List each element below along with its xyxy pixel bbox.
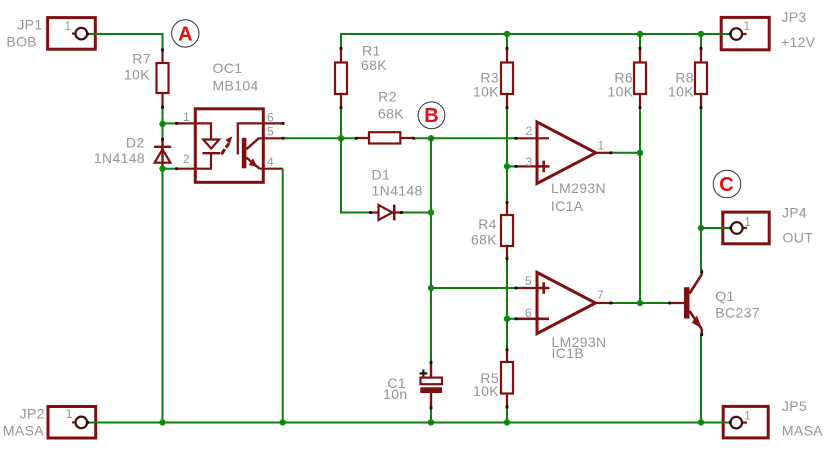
svg-text:C: C	[719, 174, 733, 196]
svg-text:MASA: MASA	[782, 423, 823, 439]
wire R8 bottom to JP4 junction	[700, 108, 702, 229]
node junction D1/node B column	[428, 209, 434, 215]
wire IC1B output to junction	[611, 302, 640, 304]
svg-text:JP1: JP1	[17, 16, 42, 32]
wire Q1 emitter down to bottom rail	[700, 334, 702, 422]
connector JP5	[723, 398, 823, 439]
svg-text:68K: 68K	[471, 232, 497, 248]
svg-text:D1: D1	[372, 167, 391, 183]
wire C1 bottom to rail	[430, 408, 432, 423]
svg-text:JP5: JP5	[782, 398, 807, 414]
svg-text:+12V: +12V	[781, 34, 816, 50]
svg-text:IC1A: IC1A	[551, 198, 584, 214]
connector JP1	[6, 16, 95, 49]
wire D1 to node B column	[401, 212, 431, 214]
node junction R7/D2/OC1 pin1	[159, 121, 165, 127]
svg-text:IC1B: IC1B	[552, 345, 585, 361]
node junction pin4 column / bottom rail	[280, 419, 286, 425]
wire D1 branch from R1 junction	[341, 138, 371, 212]
wire junction to IC1B pin6	[507, 318, 516, 320]
wire junction to Q1 base	[640, 302, 670, 304]
svg-text:BC237: BC237	[715, 305, 760, 321]
wire junction down to Q1 collector	[700, 228, 702, 270]
svg-text:OC1: OC1	[213, 60, 243, 76]
svg-text:2: 2	[526, 124, 533, 138]
svg-text:68K: 68K	[361, 57, 387, 73]
diode D1 1N4148	[370, 167, 423, 221]
node C badge	[713, 170, 741, 198]
wire OC1 pin5 to R1 junction	[283, 137, 356, 139]
svg-text:JP3: JP3	[781, 9, 806, 25]
svg-text:R2: R2	[378, 88, 397, 104]
wire node B to IC1A pin2	[431, 137, 516, 139]
svg-text:1: 1	[183, 110, 190, 124]
svg-text:7: 7	[597, 288, 604, 302]
svg-text:OUT: OUT	[783, 229, 814, 245]
wire R7 to node 1 junction	[162, 107, 164, 124]
svg-text:1N4148: 1N4148	[372, 183, 423, 199]
svg-text:5: 5	[525, 274, 532, 288]
resistor R1	[335, 43, 387, 108]
svg-text:JP4: JP4	[782, 204, 807, 220]
node junction B	[428, 135, 434, 141]
svg-text:LM293N: LM293N	[551, 180, 606, 196]
svg-text:5: 5	[267, 125, 274, 139]
svg-text:10K: 10K	[473, 383, 499, 399]
wire R5 bottom to rail	[506, 407, 508, 422]
node junction R3/R4/IC1A pin3	[504, 163, 510, 169]
svg-text:JP2: JP2	[20, 405, 45, 421]
diode D2 1N4148	[94, 135, 171, 167]
wire R4 bottom to pin6 junction	[506, 259, 508, 319]
svg-text:10K: 10K	[124, 67, 150, 83]
wire bottom rail MASA	[87, 422, 731, 424]
node junction IC1A out/R6	[637, 150, 643, 156]
svg-text:MASA: MASA	[3, 423, 44, 439]
svg-text:A: A	[178, 23, 192, 45]
node junction rail/R6	[637, 31, 643, 37]
svg-text:1: 1	[744, 409, 751, 423]
connector JP3	[721, 9, 816, 50]
pin connection ticks	[86, 33, 732, 424]
svg-text:B: B	[424, 105, 438, 127]
svg-text:4: 4	[267, 155, 274, 169]
svg-text:68K: 68K	[378, 106, 404, 122]
svg-text:BOB: BOB	[6, 33, 37, 49]
wire IC1B pin5 from node B column	[431, 287, 516, 289]
wire R3 bottom to pin3 junction	[506, 108, 508, 167]
svg-text:1: 1	[66, 407, 73, 421]
node junction R5/bottom rail	[504, 419, 510, 425]
resistor R3	[473, 48, 513, 108]
svg-text:10K: 10K	[608, 84, 634, 100]
op-amp U IC1A LM293N	[516, 122, 611, 214]
node junction R1/R2/OC1 pin5	[338, 135, 344, 141]
svg-text:MB104: MB104	[213, 78, 259, 94]
wire IC1A output to R6 column	[611, 152, 640, 154]
op-amp U IC1B LM293N	[516, 272, 611, 361]
wire rail to R3 top	[506, 34, 508, 48]
node junction node B column/pin5 wire	[428, 285, 434, 291]
wire D2 column down to bottom rail	[162, 124, 164, 422]
node A badge	[172, 20, 199, 47]
svg-text:10K: 10K	[668, 84, 694, 100]
svg-text:R7: R7	[132, 51, 151, 67]
svg-text:2: 2	[183, 152, 190, 166]
resistor R5	[473, 319, 513, 407]
svg-text:6: 6	[525, 306, 532, 320]
node junction R8/JP4/collector	[698, 225, 704, 231]
resistor R6	[608, 34, 646, 108]
svg-text:D2: D2	[126, 135, 145, 151]
optocoupler OC1 MB104	[177, 60, 284, 182]
svg-text:R4: R4	[478, 216, 497, 232]
transistor Q1 BC237	[670, 270, 760, 335]
resistor R4	[471, 166, 513, 259]
svg-text:1: 1	[744, 19, 751, 33]
wire overlays across connector borders	[87, 34, 731, 423]
wire junction to OC1 pin 1	[163, 122, 178, 124]
wire JP1 to node A corner	[87, 34, 163, 51]
connector JP4	[723, 204, 813, 245]
node junction rail/R8	[698, 31, 704, 37]
svg-text:10K: 10K	[473, 84, 499, 100]
svg-text:1: 1	[65, 19, 72, 33]
wire R2 to node B	[414, 137, 431, 139]
node B badge	[418, 102, 445, 129]
resistor R8	[668, 34, 707, 108]
svg-text:Q1: Q1	[715, 288, 734, 304]
wire junction to IC1A pin3	[507, 165, 516, 167]
svg-text:3: 3	[526, 155, 533, 169]
resistor R7	[124, 51, 168, 108]
wire top rail +12V	[341, 34, 731, 138]
svg-text:1: 1	[744, 215, 751, 229]
wire R6 bottom through out node down to IC1B out node	[639, 108, 641, 304]
wire node B column down to C1	[430, 138, 432, 377]
wire JP4 to junction	[701, 227, 731, 229]
node junction R4/R5/IC1B pin6	[504, 316, 510, 322]
node junction D2/OC1 pin2	[159, 166, 165, 172]
node junction rail/R3	[504, 31, 510, 37]
resistor R2	[356, 88, 414, 143]
node junction C1/bottom rail	[428, 419, 434, 425]
node junction IC1B out/R6 column	[637, 300, 643, 306]
node junction D2 column/bottom rail	[159, 419, 165, 425]
svg-text:6: 6	[267, 111, 274, 125]
svg-text:10n: 10n	[383, 386, 407, 402]
svg-text:1: 1	[598, 139, 605, 153]
svg-text:1N4148: 1N4148	[94, 150, 145, 166]
connector JP2	[3, 405, 96, 438]
wire OC1 pin4 down to bottom rail	[282, 169, 284, 423]
wire junction to OC1 pin 2	[163, 168, 178, 170]
capacitor C1 10n	[383, 362, 442, 408]
node junction emitter/bottom rail	[698, 419, 704, 425]
